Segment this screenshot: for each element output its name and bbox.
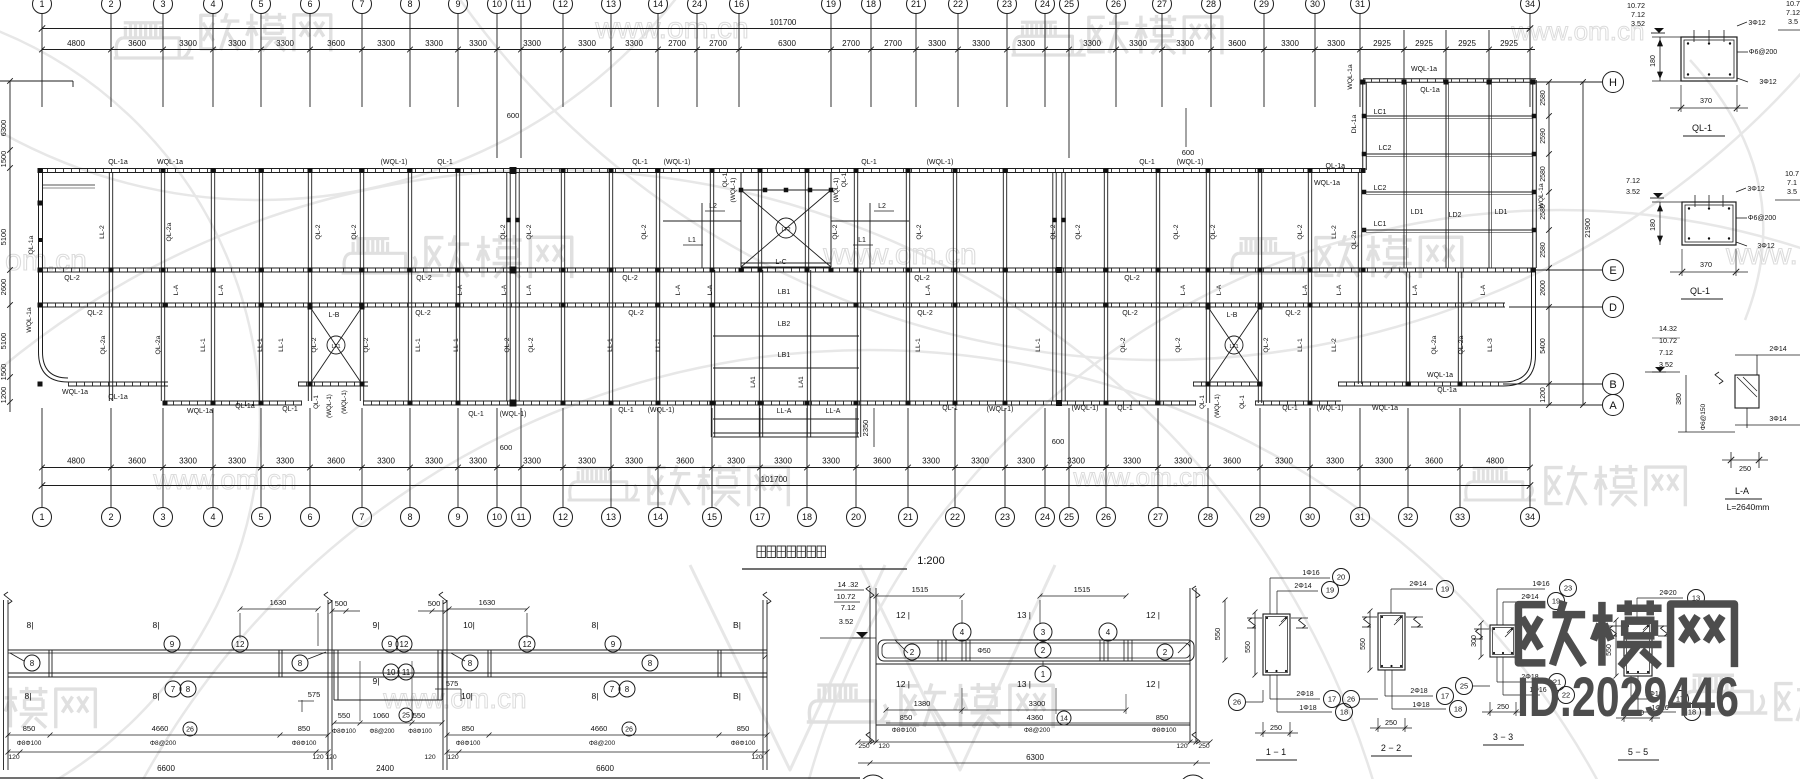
svg-text:LB2: LB2 (778, 321, 791, 328)
svg-text:120: 120 (312, 754, 324, 761)
svg-text:20: 20 (1337, 573, 1345, 582)
stair panel LT1 right (1206, 305, 1263, 387)
svg-text:QL-2: QL-2 (64, 275, 80, 282)
svg-text:550: 550 (1360, 638, 1367, 650)
middle detail bottom dims (856, 740, 1213, 779)
level marks for middle detail (820, 580, 876, 638)
watermark www row3 center-right (1073, 462, 1207, 492)
svg-text:B: B (1609, 379, 1616, 391)
svg-text:4: 4 (960, 628, 965, 637)
svg-text:850: 850 (1156, 713, 1169, 722)
svg-text:3300: 3300 (425, 39, 443, 48)
rotated L-A labels row 2 (173, 284, 1487, 295)
svg-text:Φ8Φ100: Φ8Φ100 (456, 740, 481, 747)
svg-text:QL-1: QL-1 (282, 406, 298, 413)
svg-text:9: 9 (611, 640, 616, 649)
svg-text:3.52: 3.52 (1631, 19, 1645, 28)
watermark om.cn mid left (5, 244, 87, 277)
rotated labels near LT1 bottoms (313, 390, 1246, 418)
svg-text:L-A: L-A (1735, 486, 1749, 496)
svg-text:101700: 101700 (761, 475, 788, 484)
svg-text:7.12: 7.12 (1786, 8, 1800, 17)
svg-text:3300: 3300 (822, 457, 840, 466)
svg-text:Φ6@150: Φ6@150 (1700, 403, 1707, 430)
svg-text:3600: 3600 (1228, 39, 1246, 48)
svg-text:4: 4 (210, 512, 215, 522)
right 550 dim of middle detail (1213, 598, 1228, 663)
svg-text:LL-1: LL-1 (1297, 338, 1304, 352)
svg-text:QL-2: QL-2 (87, 310, 103, 317)
svg-text:33: 33 (1455, 512, 1465, 522)
svg-text:850: 850 (298, 724, 311, 733)
svg-text:QL-1: QL-1 (1282, 405, 1298, 412)
svg-text:3300: 3300 (179, 457, 197, 466)
svg-text:8|: 8| (153, 620, 160, 630)
left exterior wall (26, 169, 95, 383)
svg-text:1630: 1630 (479, 598, 496, 607)
svg-text:2Φ20: 2Φ20 (1659, 590, 1676, 597)
svg-text:L-A: L-A (1302, 284, 1309, 295)
svg-text:QL-2: QL-2 (832, 224, 839, 239)
svg-text:370: 370 (1700, 260, 1712, 269)
svg-text:(WQL-1): (WQL-1) (1317, 405, 1344, 412)
svg-text:2580: 2580 (1540, 242, 1547, 258)
svg-text:2Φ18: 2Φ18 (1410, 688, 1427, 695)
svg-text:6600: 6600 (596, 764, 614, 773)
svg-text:8|: 8| (592, 620, 599, 630)
svg-text:5: 5 (258, 0, 263, 9)
svg-text:13: 13 (606, 512, 616, 522)
svg-text:(WQL-1): (WQL-1) (1177, 159, 1204, 166)
svg-text:3600: 3600 (1425, 457, 1443, 466)
svg-text:24: 24 (692, 0, 702, 9)
svg-text:LL-2: LL-2 (99, 225, 106, 239)
svg-text:8: 8 (468, 659, 473, 668)
svg-text:WQL-1a: WQL-1a (187, 408, 213, 415)
svg-text:31: 31 (1355, 512, 1365, 522)
svg-text:4: 4 (1106, 628, 1111, 637)
svg-text:6600: 6600 (157, 764, 175, 773)
svg-text:250: 250 (1739, 464, 1751, 473)
svg-text:575: 575 (308, 690, 321, 699)
svg-text:QL-1: QL-1 (632, 159, 648, 166)
svg-text:19: 19 (1441, 585, 1449, 594)
svg-text:2Φ14: 2Φ14 (1409, 581, 1426, 588)
svg-text:QL-2a: QL-2a (100, 335, 107, 354)
svg-text:4800: 4800 (1486, 457, 1504, 466)
watermark text bottom middle (901, 683, 1053, 728)
svg-text:LT1: LT1 (331, 344, 340, 350)
svg-text:QL-2: QL-2 (1297, 224, 1304, 239)
svg-text:17: 17 (1328, 695, 1336, 704)
svg-text:QL-1: QL-1 (1690, 286, 1710, 296)
interior vertical beams at grid columns (109, 172, 1461, 403)
svg-text:3300: 3300 (971, 457, 989, 466)
svg-text:3.5: 3.5 (1787, 187, 1797, 196)
watermark text top right-center (1089, 15, 1222, 54)
svg-text:L=2640mm: L=2640mm (1727, 502, 1770, 512)
svg-text:27: 27 (1157, 0, 1167, 9)
svg-text:29: 29 (1259, 0, 1269, 9)
svg-text:QL-1: QL-1 (1139, 159, 1155, 166)
top left corner line (0, 81, 73, 87)
svg-text:4800: 4800 (67, 457, 85, 466)
svg-text:26: 26 (1111, 0, 1121, 9)
labels below third chord (87, 310, 1301, 317)
svg-text:QL-1a: QL-1a (1326, 163, 1346, 170)
watermark sofa bottom middle (807, 685, 891, 722)
svg-text:22: 22 (953, 0, 963, 9)
svg-text:7: 7 (359, 0, 364, 9)
svg-text:QL-2: QL-2 (1122, 310, 1138, 317)
svg-text:WQL-1a: WQL-1a (1314, 180, 1340, 187)
svg-text:9: 9 (455, 512, 460, 522)
svg-text:17: 17 (755, 512, 765, 522)
svg-text:QL-2: QL-2 (1173, 224, 1180, 239)
svg-text:31: 31 (1355, 0, 1365, 9)
svg-text:7.12: 7.12 (1631, 10, 1645, 19)
svg-text:2590: 2590 (1540, 128, 1547, 144)
svg-text:7.12: 7.12 (1659, 348, 1673, 357)
svg-text:120: 120 (878, 743, 890, 750)
svg-text:2 − 2: 2 − 2 (1381, 743, 1401, 753)
svg-text:WQL-1a: WQL-1a (1411, 66, 1437, 73)
svg-text:550: 550 (338, 711, 351, 720)
svg-text:Φ8Φ100: Φ8Φ100 (408, 728, 432, 735)
svg-text:18: 18 (1340, 708, 1348, 717)
svg-text:QL-2: QL-2 (622, 275, 638, 282)
labels below second chord (64, 275, 1140, 282)
svg-text:19: 19 (826, 0, 836, 9)
svg-text:26: 26 (186, 726, 194, 733)
svg-text:25: 25 (1064, 0, 1074, 9)
svg-text:8|: 8| (27, 620, 34, 630)
svg-text:1:200: 1:200 (917, 555, 945, 567)
svg-text:300: 300 (1471, 635, 1478, 647)
svg-text:Φ6@200: Φ6@200 (1749, 49, 1777, 56)
svg-text:25: 25 (402, 712, 410, 719)
svg-text:3300: 3300 (928, 39, 946, 48)
svg-text:(WQL-1): (WQL-1) (987, 406, 1014, 413)
middle beam lower block (876, 664, 1190, 734)
svg-text:QL-2: QL-2 (528, 337, 535, 352)
svg-text:3: 3 (1041, 628, 1046, 637)
svg-text:L-B: L-B (329, 312, 340, 319)
top dimension line with segment dims (39, 39, 1535, 52)
svg-text:QL-2: QL-2 (1124, 275, 1140, 282)
svg-text:QL-2: QL-2 (416, 275, 432, 282)
svg-text:2700: 2700 (709, 39, 727, 48)
svg-text:26: 26 (1347, 695, 1355, 704)
middle beam band (878, 640, 1194, 682)
bottom dimension line 101700 (39, 475, 1533, 489)
svg-text:8: 8 (298, 659, 303, 668)
svg-text:8: 8 (407, 0, 412, 9)
svg-text:WQL-1a: WQL-1a (1427, 372, 1453, 379)
right vertical dimension line outer 21900 (1580, 79, 1592, 408)
watermark text row3 right (1546, 465, 1685, 506)
top dimension line 101700 (39, 18, 1533, 32)
letter bubbles H E D B A (1603, 72, 1624, 93)
svg-text:8|: 8| (592, 691, 599, 701)
svg-text:1380: 1380 (914, 699, 931, 708)
svg-text:QL-1: QL-1 (618, 407, 634, 414)
svg-text:3Φ12: 3Φ12 (1757, 243, 1774, 250)
svg-text:LL-1: LL-1 (278, 338, 285, 352)
svg-text:3.52: 3.52 (839, 617, 854, 626)
svg-text:Φ8@200: Φ8@200 (1024, 727, 1051, 734)
svg-text:2580: 2580 (1540, 204, 1547, 220)
svg-text:L-A: L-A (218, 284, 225, 295)
svg-text:21: 21 (911, 0, 921, 9)
svg-text:LD1: LD1 (1411, 209, 1424, 216)
detail L-A section (1645, 324, 1800, 512)
stair panel LT1 left (308, 305, 365, 387)
svg-text:WQL-1a: WQL-1a (1347, 64, 1354, 90)
row extension lines to letter bubbles (1341, 82, 1602, 405)
svg-text:L-A: L-A (675, 284, 682, 295)
svg-text:7: 7 (171, 685, 176, 694)
svg-text:10.72: 10.72 (1659, 336, 1677, 345)
svg-text:1Φ16: 1Φ16 (1302, 570, 1319, 577)
beam labels above top chord (108, 159, 1203, 166)
svg-text:L-A: L-A (501, 284, 508, 295)
svg-text:18: 18 (802, 512, 812, 522)
svg-text:3Φ12: 3Φ12 (1759, 79, 1776, 86)
svg-text:2: 2 (1163, 648, 1168, 657)
svg-text:QL-1: QL-1 (1239, 395, 1246, 409)
svg-text:(WQL-1): (WQL-1) (341, 390, 348, 414)
svg-text:QL-1: QL-1 (722, 172, 729, 187)
svg-text:850: 850 (737, 724, 750, 733)
svg-text:24: 24 (1040, 0, 1050, 9)
svg-text:550: 550 (1213, 628, 1222, 641)
svg-text:9: 9 (170, 640, 175, 649)
svg-text:16: 16 (734, 0, 744, 9)
svg-text:8|: 8| (25, 691, 32, 701)
svg-text:QL-2: QL-2 (504, 337, 511, 352)
svg-text:17: 17 (1441, 692, 1449, 701)
svg-text:LA1: LA1 (750, 376, 757, 388)
svg-text:3300: 3300 (276, 457, 294, 466)
watermark www mid-right edge (1725, 238, 1798, 271)
svg-text:LL-1: LL-1 (915, 338, 922, 352)
svg-text:LL-3: LL-3 (1487, 338, 1494, 352)
svg-text:(WQL-1): (WQL-1) (664, 159, 691, 166)
svg-text:1515: 1515 (912, 585, 929, 594)
svg-text:QL-2a: QL-2a (155, 335, 162, 354)
svg-text:2Φ18: 2Φ18 (1296, 691, 1313, 698)
svg-text:QL-2: QL-2 (1263, 337, 1270, 352)
svg-text:4660: 4660 (591, 724, 608, 733)
watermark text partial bottom right edge (1776, 681, 1800, 721)
svg-text:21: 21 (903, 512, 913, 522)
svg-text:L-A: L-A (1412, 284, 1419, 295)
svg-text:12: 12 (236, 640, 245, 649)
svg-text:2700: 2700 (842, 39, 860, 48)
svg-text:(WQL-1): (WQL-1) (730, 178, 737, 203)
right edge clipped level texts middle (1775, 169, 1800, 200)
svg-text:180: 180 (1650, 55, 1657, 67)
svg-text:8: 8 (648, 659, 653, 668)
svg-text:3300: 3300 (1375, 457, 1393, 466)
svg-text:8: 8 (625, 685, 630, 694)
svg-text:(WQL-1): (WQL-1) (381, 159, 408, 166)
svg-text:B|: B| (733, 620, 741, 630)
svg-text:34: 34 (1525, 0, 1535, 9)
svg-text:23: 23 (1564, 584, 1572, 593)
svg-text:2600: 2600 (0, 279, 8, 296)
svg-text:180: 180 (1650, 219, 1657, 231)
svg-text:1: 1 (39, 512, 44, 522)
section detail 3-3 (1456, 580, 1577, 746)
svg-text:250: 250 (1198, 743, 1210, 750)
svg-text:12 |: 12 | (1146, 679, 1160, 689)
svg-text:Φ8Φ100: Φ8Φ100 (731, 740, 756, 747)
top grid bubbles and stub lines (33, 0, 1540, 158)
svg-text:L-C: L-C (775, 259, 786, 266)
svg-text:2: 2 (1041, 646, 1046, 655)
svg-text:6: 6 (307, 512, 312, 522)
svg-text:QL-2: QL-2 (1120, 337, 1127, 352)
svg-text:2600: 2600 (1540, 280, 1547, 296)
watermark sofa row3 center (568, 468, 640, 500)
svg-text:3 − 3: 3 − 3 (1493, 732, 1513, 742)
detail QL-1 section top (1627, 1, 1777, 136)
svg-text:L-A: L-A (1336, 284, 1343, 295)
svg-text:15: 15 (707, 512, 717, 522)
svg-text:10|: 10| (463, 620, 475, 630)
svg-text:(WQL-1): (WQL-1) (833, 178, 840, 203)
svg-text:12 |: 12 | (896, 679, 910, 689)
svg-text:(WQL-1): (WQL-1) (1072, 405, 1099, 412)
svg-text:23: 23 (1002, 0, 1012, 9)
svg-text:LL-1: LL-1 (257, 338, 264, 352)
svg-text:(WQL-1): (WQL-1) (326, 394, 333, 418)
svg-text:3300: 3300 (625, 39, 643, 48)
svg-text:WQL-1a: WQL-1a (1372, 405, 1398, 412)
svg-text:QL-1: QL-1 (468, 411, 484, 418)
svg-text:3300: 3300 (1017, 39, 1035, 48)
svg-text:7.1: 7.1 (1787, 178, 1797, 187)
svg-text:3300: 3300 (578, 39, 596, 48)
svg-text:LB1: LB1 (778, 289, 791, 296)
svg-text:3600: 3600 (327, 457, 345, 466)
svg-text:3300: 3300 (578, 457, 596, 466)
svg-text:7.12: 7.12 (841, 603, 856, 612)
svg-text:QL-2: QL-2 (916, 224, 923, 239)
svg-text:E: E (1609, 265, 1616, 277)
svg-text:2: 2 (108, 0, 113, 9)
svg-text:3300: 3300 (1029, 699, 1046, 708)
central slab block LB/LA/LL-A grid (711, 270, 860, 437)
svg-text:9|: 9| (373, 676, 380, 686)
svg-text:QL-1: QL-1 (1117, 405, 1133, 412)
svg-text:1630: 1630 (270, 598, 287, 607)
svg-text:QL-1: QL-1 (861, 159, 877, 166)
svg-text:LL-1: LL-1 (453, 338, 460, 352)
svg-text:7: 7 (359, 512, 364, 522)
right exterior wall with round corner (1503, 268, 1536, 386)
svg-text:850: 850 (23, 724, 36, 733)
svg-text:3300: 3300 (1123, 457, 1141, 466)
svg-text:LB1: LB1 (778, 352, 791, 359)
watermark sofa top right-center (1012, 22, 1086, 55)
svg-text:120: 120 (325, 754, 337, 761)
right vertical dimension line inner (1540, 79, 1552, 408)
svg-text:10.72: 10.72 (1627, 1, 1645, 10)
svg-text:WQL-1a: WQL-1a (26, 307, 33, 333)
svg-text:550: 550 (413, 711, 426, 720)
svg-text:1: 1 (39, 0, 44, 9)
svg-text:3300: 3300 (774, 457, 792, 466)
svg-text:600: 600 (500, 443, 513, 452)
section detail 2-2 (1343, 581, 1467, 757)
svg-text:2Φ14: 2Φ14 (1521, 594, 1538, 601)
svg-text:L-A: L-A (1216, 284, 1223, 295)
svg-text:QL-2: QL-2 (415, 310, 431, 317)
svg-text:3: 3 (160, 512, 165, 522)
svg-text:3600: 3600 (873, 457, 891, 466)
svg-text:3300: 3300 (972, 39, 990, 48)
svg-text:QL-2: QL-2 (315, 224, 322, 239)
svg-text:LC1: LC1 (1374, 109, 1387, 116)
svg-text:3300: 3300 (922, 457, 940, 466)
svg-text:5400: 5400 (1540, 338, 1547, 354)
right edge clipped level texts top (1778, 0, 1800, 30)
svg-text:QL-1a: QL-1a (235, 403, 255, 410)
svg-text:www.om.cn: www.om.cn (1511, 16, 1645, 46)
svg-text:30: 30 (1305, 512, 1315, 522)
detail QL-1 section bottom (1626, 176, 1776, 299)
svg-text:20: 20 (851, 512, 861, 522)
svg-text:L-A: L-A (173, 284, 180, 295)
middle beam detail frame (866, 585, 1200, 744)
svg-text:1Φ18: 1Φ18 (1412, 702, 1429, 709)
svg-text:250: 250 (1270, 723, 1282, 732)
svg-text:1Φ18: 1Φ18 (1299, 705, 1316, 712)
svg-text:QL-2: QL-2 (1210, 224, 1217, 239)
svg-text:L1: L1 (858, 237, 866, 244)
svg-text:B|: B| (733, 691, 741, 701)
svg-text:QL-1: QL-1 (437, 159, 453, 166)
svg-text:370: 370 (1700, 96, 1712, 105)
svg-text:www.om.cn: www.om.cn (1073, 462, 1207, 492)
svg-text:8: 8 (30, 659, 35, 668)
section detail 1-1 (1229, 569, 1353, 761)
watermark sofa bottom right (1682, 675, 1768, 713)
svg-text:L-A: L-A (1480, 284, 1487, 295)
svg-text:120: 120 (751, 754, 763, 761)
watermark sofa mid-right (1230, 239, 1308, 273)
svg-text:3600: 3600 (128, 39, 146, 48)
svg-text:2925: 2925 (1500, 39, 1518, 48)
svg-text:1200: 1200 (0, 387, 8, 404)
svg-text:LL-2: LL-2 (1331, 225, 1338, 239)
svg-text:13 |: 13 | (1017, 679, 1031, 689)
svg-text:3300: 3300 (469, 457, 487, 466)
lintel L2 cross left of LT2 (663, 203, 741, 268)
top chord beam QL-1 (wall) (39, 169, 1363, 173)
svg-text:3300: 3300 (1176, 39, 1194, 48)
svg-text:3300: 3300 (727, 457, 745, 466)
svg-text:4: 4 (210, 0, 215, 9)
svg-text:QL-2: QL-2 (1075, 224, 1082, 239)
svg-text:21900: 21900 (1585, 218, 1592, 238)
svg-text:5100: 5100 (0, 229, 8, 246)
bottom grid bubbles and stub lines (33, 408, 1540, 527)
svg-text:L-A: L-A (457, 284, 464, 295)
